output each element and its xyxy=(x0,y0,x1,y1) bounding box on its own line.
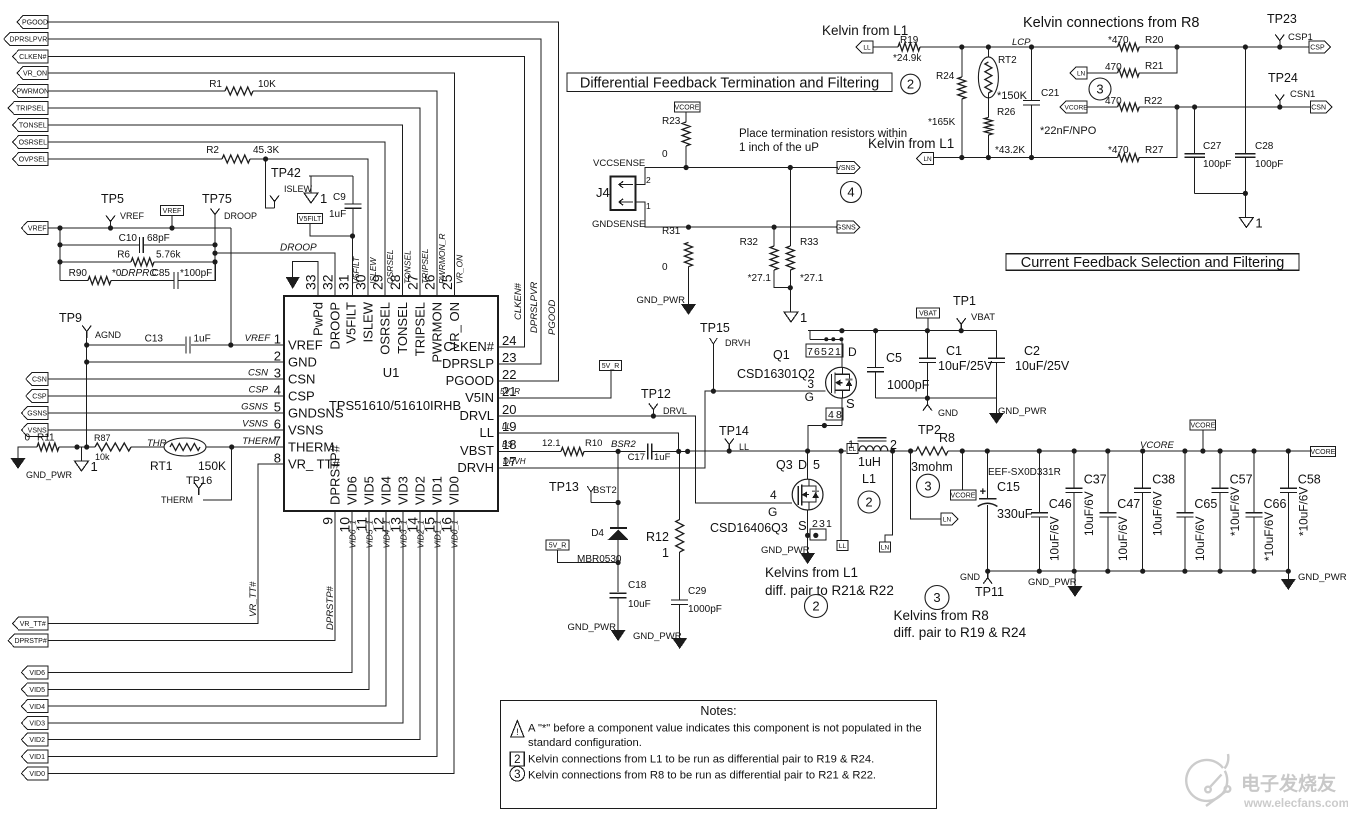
wire CSP xyxy=(48,395,284,397)
svg-text:Kelvin connections from R8 to: Kelvin connections from R8 to be run as … xyxy=(528,769,876,781)
svg-text:5V_R: 5V_R xyxy=(500,387,520,396)
svg-text:68pF: 68pF xyxy=(147,233,170,244)
svg-text:VREF: VREF xyxy=(245,333,272,344)
wire VBAT rail xyxy=(808,330,997,332)
svg-text:3: 3 xyxy=(819,518,825,530)
svg-text:VCORE: VCORE xyxy=(675,104,700,111)
svg-text:CSD16301Q2: CSD16301Q2 xyxy=(737,367,815,381)
svg-text:EEF-SX0D331R: EEF-SX0D331R xyxy=(988,467,1061,478)
svg-text:VID6: VID6 xyxy=(345,476,360,505)
net flag GSNS xyxy=(21,407,48,420)
svg-text:1: 1 xyxy=(800,310,807,325)
svg-text:*100pF: *100pF xyxy=(180,268,212,279)
svg-text:DROOP: DROOP xyxy=(328,302,343,350)
svg-text:VID4: VID4 xyxy=(379,476,394,505)
svg-text:2: 2 xyxy=(514,754,520,766)
svg-text:TP15: TP15 xyxy=(700,321,730,335)
wire Q1 source xyxy=(841,398,843,426)
wire TRIPSEL xyxy=(48,108,420,296)
svg-text:C37: C37 xyxy=(1084,473,1107,487)
svg-text:1: 1 xyxy=(835,346,841,358)
net flag GSNS out xyxy=(837,221,860,233)
svg-text:VID6: VID6 xyxy=(29,670,45,677)
svg-text:*165K: *165K xyxy=(928,117,956,128)
svg-text:PGOOD: PGOOD xyxy=(547,299,558,335)
svg-text:2: 2 xyxy=(646,175,651,185)
svg-text:PWRMON: PWRMON xyxy=(16,89,49,96)
J4 pin2 arrow xyxy=(619,184,633,186)
svg-text:3mohm: 3mohm xyxy=(911,460,953,474)
svg-text:C9: C9 xyxy=(333,192,346,203)
circled 2 note xyxy=(805,595,828,618)
svg-text:*27.1: *27.1 xyxy=(748,273,772,284)
svg-text:10uF/6V: 10uF/6V xyxy=(1047,516,1061,561)
svg-text:3: 3 xyxy=(514,769,520,781)
capacitor C37 xyxy=(1073,451,1075,488)
net flag PGOOD xyxy=(17,16,48,29)
svg-text:GNDSNS: GNDSNS xyxy=(288,406,344,421)
svg-text:MBR0530: MBR0530 xyxy=(577,554,622,565)
svg-text:TP42: TP42 xyxy=(271,166,301,180)
svg-text:1: 1 xyxy=(848,439,854,451)
svg-text:CLKEN#: CLKEN# xyxy=(19,54,46,61)
svg-text:CSN: CSN xyxy=(1311,105,1326,112)
wire C27-C28 gnd link xyxy=(1195,192,1246,194)
svg-text:GND_PWR: GND_PWR xyxy=(633,631,682,642)
svg-text:DPRSTP#: DPRSTP# xyxy=(14,638,46,645)
power-down arrow xyxy=(286,277,300,289)
circled 3 note xyxy=(510,767,525,782)
svg-text:C47: C47 xyxy=(1117,497,1140,511)
resistor R8 xyxy=(908,448,913,453)
net flag CLKEN# xyxy=(13,50,48,63)
svg-text:4: 4 xyxy=(770,488,777,502)
wire LN kelvin from R8 xyxy=(911,451,941,519)
svg-text:TRIPSEL: TRIPSEL xyxy=(16,106,45,113)
svg-text:CSN: CSN xyxy=(248,368,268,379)
capacitor C29 xyxy=(679,552,681,600)
svg-text:DPRSLPVR: DPRSLPVR xyxy=(529,282,540,333)
test point TP13 xyxy=(590,492,592,503)
test point TP23 xyxy=(1279,41,1281,48)
svg-text:GND_PWR: GND_PWR xyxy=(761,545,810,556)
svg-text:3: 3 xyxy=(933,590,940,605)
svg-text:TP1: TP1 xyxy=(953,294,976,308)
svg-text:0: 0 xyxy=(662,262,668,273)
capacitor C27 xyxy=(1194,107,1196,153)
net flag LN kelvin xyxy=(917,153,934,165)
wire VID0 xyxy=(48,511,454,773)
svg-text:C10: C10 xyxy=(119,233,138,244)
svg-text:S: S xyxy=(846,396,855,411)
wire V5IN pin21 xyxy=(498,371,611,399)
svg-text:TP2: TP2 xyxy=(918,423,941,437)
test point TP42 xyxy=(274,202,276,209)
svg-text:Current Feedback Selection and: Current Feedback Selection and Filtering xyxy=(1021,255,1285,271)
svg-text:10uF/6V: 10uF/6V xyxy=(1082,491,1096,536)
wire C9 top link xyxy=(309,175,353,177)
svg-text:diff. pair to R21& R22: diff. pair to R21& R22 xyxy=(765,583,894,598)
svg-text:VID0_1: VID0_1 xyxy=(450,520,460,549)
svg-text:*22nF/NPO: *22nF/NPO xyxy=(1040,125,1097,137)
test point TP75 xyxy=(214,215,216,222)
wire RT1 to pin7 xyxy=(206,446,284,448)
thermistor RT2 xyxy=(987,47,989,57)
svg-text:DRVH: DRVH xyxy=(457,460,494,475)
svg-text:OSRSEL: OSRSEL xyxy=(385,249,395,284)
capacitor C13 xyxy=(191,344,231,346)
wire CLKEN# xyxy=(48,57,525,348)
svg-text:R8: R8 xyxy=(939,431,955,445)
svg-text:LN: LN xyxy=(923,156,932,163)
svg-text:G: G xyxy=(768,505,777,519)
svg-text:0: 0 xyxy=(24,433,30,444)
svg-text:24: 24 xyxy=(502,333,516,348)
capacitor C10 xyxy=(60,244,140,246)
net flag VID0 xyxy=(21,767,48,780)
svg-text:VID5: VID5 xyxy=(29,687,45,694)
svg-text:TONSEL: TONSEL xyxy=(403,250,413,284)
svg-text:CSN: CSN xyxy=(32,377,47,384)
net flag LN (R21) xyxy=(1070,67,1087,79)
wire left bus xyxy=(59,228,61,281)
wire R11 to ground xyxy=(18,447,37,458)
net flag VID2 xyxy=(21,733,48,746)
label LL box hang xyxy=(837,541,848,551)
svg-text:1: 1 xyxy=(662,546,669,560)
svg-text:C27: C27 xyxy=(1203,141,1222,152)
label VREF box xyxy=(160,206,183,216)
svg-text:diff. pair to R19 & R24: diff. pair to R19 & R24 xyxy=(894,625,1027,640)
svg-text:GND_PWR: GND_PWR xyxy=(1028,577,1077,588)
svg-text:R10: R10 xyxy=(585,438,602,449)
svg-text:33: 33 xyxy=(303,274,319,290)
net flag TONSEL xyxy=(13,119,48,132)
resistor R24 xyxy=(961,47,963,77)
svg-text:GND_PWR: GND_PWR xyxy=(26,470,73,480)
wire DROOP xyxy=(215,253,335,296)
svg-text:V5FILT: V5FILT xyxy=(344,302,359,344)
test point TP14 xyxy=(727,448,732,453)
svg-text:2: 2 xyxy=(812,518,818,530)
svg-text:100pF: 100pF xyxy=(1203,159,1231,170)
capacitor C58 xyxy=(1287,451,1289,488)
svg-text:BS: BS xyxy=(502,440,513,449)
net flag PWRMON xyxy=(13,85,48,98)
wire VR_TT# xyxy=(48,464,284,623)
wire DRVL pin20 xyxy=(498,416,792,503)
wire 5V_R to C18 node xyxy=(558,550,619,563)
ground GND_PWR mid xyxy=(1074,571,1076,586)
svg-text:C57: C57 xyxy=(1230,473,1253,487)
test point TP12 xyxy=(651,413,656,418)
svg-text:C38: C38 xyxy=(1152,473,1175,487)
svg-text:OSRSEL: OSRSEL xyxy=(378,302,393,355)
svg-text:TP13: TP13 xyxy=(549,480,579,494)
net flag DPRSLPVR xyxy=(4,33,48,46)
svg-text:DPRSLPVR: DPRSLPVR xyxy=(10,37,48,44)
thermistor RT1 xyxy=(164,438,206,456)
note: Kelvins from R8 xyxy=(925,586,949,610)
capacitor C47 xyxy=(1107,451,1109,513)
svg-text:VID5: VID5 xyxy=(362,476,377,505)
capacitor C46 xyxy=(1038,451,1040,513)
node OVPSEL/ISLEW junction xyxy=(263,156,268,161)
svg-text:G: G xyxy=(805,390,814,404)
net flag VID5 xyxy=(21,683,48,696)
svg-text:R21: R21 xyxy=(1145,61,1164,72)
svg-text:C65: C65 xyxy=(1194,497,1217,511)
svg-text:TP5: TP5 xyxy=(101,192,124,206)
net flag VID6 xyxy=(21,666,48,679)
wire DRVH pin17 xyxy=(498,391,826,468)
connector J4 xyxy=(611,176,636,210)
svg-text:VID0: VID0 xyxy=(29,771,45,778)
wire Q1 drain xyxy=(841,339,843,367)
svg-text:GSNS: GSNS xyxy=(27,411,47,418)
svg-text:12.1: 12.1 xyxy=(542,438,561,449)
svg-text:Kelvins from L1: Kelvins from L1 xyxy=(765,565,858,580)
svg-text:R27: R27 xyxy=(1145,145,1164,156)
svg-text:GND: GND xyxy=(938,408,959,418)
svg-text:GND: GND xyxy=(288,355,317,370)
ground triangle 1 R33 xyxy=(784,312,798,322)
svg-text:R24: R24 xyxy=(936,71,955,82)
net flag DPRSTP# xyxy=(8,634,48,647)
resistor R21 xyxy=(1087,72,1118,74)
svg-text:DRVL: DRVL xyxy=(460,408,494,423)
svg-text:LL: LL xyxy=(480,425,494,440)
svg-text:RT1: RT1 xyxy=(150,459,173,473)
svg-text:DRVH: DRVH xyxy=(725,338,750,348)
node L1 pin2 xyxy=(890,448,895,453)
svg-text:VID1: VID1 xyxy=(29,754,45,761)
svg-text:THERM: THERM xyxy=(161,495,193,505)
wire DPRSTP# xyxy=(48,511,335,641)
wire VSNS xyxy=(48,429,284,431)
wire V5FILT to pin31 xyxy=(310,224,353,237)
ground triangle 1 C28 xyxy=(1239,217,1253,227)
svg-text:C15: C15 xyxy=(997,480,1020,494)
ground GND_PWR R31 xyxy=(681,304,696,315)
svg-text:5V_R: 5V_R xyxy=(549,543,567,550)
svg-text:8: 8 xyxy=(274,451,281,466)
net flag LL kelvin xyxy=(856,41,873,53)
wire PWRMON xyxy=(48,90,225,92)
label LL box on rail xyxy=(847,444,858,454)
svg-text:VCORE: VCORE xyxy=(1140,440,1174,451)
svg-text:U1: U1 xyxy=(383,365,400,380)
label VBAT box xyxy=(916,308,939,318)
wire PGOOD xyxy=(48,22,559,381)
J4 pin1 arrow xyxy=(619,201,633,203)
svg-text:TRIPSEL: TRIPSEL xyxy=(420,248,430,284)
svg-text:VR_TT#: VR_TT# xyxy=(20,621,46,628)
svg-text:TP11: TP11 xyxy=(975,585,1004,599)
net flag VID1 xyxy=(21,750,48,763)
svg-text:电子发烧友: 电子发烧友 xyxy=(1241,772,1336,795)
svg-text:*24.9k: *24.9k xyxy=(893,53,922,64)
wire VID4 xyxy=(48,511,386,706)
svg-text:TP14: TP14 xyxy=(719,424,749,438)
capacitor C18 xyxy=(610,592,627,594)
svg-text:VCORE: VCORE xyxy=(1190,423,1215,430)
watermark logo elecfans xyxy=(1186,754,1230,806)
svg-text:VR_TT#: VR_TT# xyxy=(248,581,259,617)
svg-text:GND: GND xyxy=(960,572,981,582)
wire VID5 xyxy=(48,511,369,689)
net flag OVPSEL xyxy=(13,153,48,166)
svg-text:D: D xyxy=(798,458,807,472)
svg-text:*10uF/6V: *10uF/6V xyxy=(1262,512,1276,561)
wire GSNS xyxy=(48,412,284,414)
wire VREF row xyxy=(48,227,231,229)
net flag OSRSEL xyxy=(13,136,48,149)
label 5V_R box D4 xyxy=(546,540,569,550)
label VCORE box above rail xyxy=(1190,420,1216,430)
svg-text:VREF: VREF xyxy=(288,338,323,353)
net flag VID3 xyxy=(21,717,48,730)
net flag CSP xyxy=(26,390,48,403)
svg-text:PWRMON: PWRMON xyxy=(430,302,445,363)
resistor R19 xyxy=(873,46,898,48)
wire BSR2 node xyxy=(584,450,646,452)
inductor L1 xyxy=(859,446,888,451)
svg-text:10uF/6V: 10uF/6V xyxy=(1116,516,1130,561)
svg-text:J4: J4 xyxy=(596,185,610,200)
net flag VREF xyxy=(21,222,48,235)
svg-text:VID2: VID2 xyxy=(29,737,45,744)
capacitor C21 xyxy=(1031,47,1033,101)
svg-text:C2: C2 xyxy=(1024,344,1040,358)
svg-text:7: 7 xyxy=(807,346,813,358)
Q1 source pin group 48 xyxy=(826,408,843,420)
wire TONSEL xyxy=(48,125,403,296)
svg-text:Kelvins from R8: Kelvins from R8 xyxy=(894,608,989,623)
svg-text:CLKEN#: CLKEN# xyxy=(513,282,524,320)
svg-text:C1: C1 xyxy=(946,344,962,358)
wire PwPd pin33 xyxy=(293,262,318,297)
capacitor C5 xyxy=(875,331,877,368)
svg-text:VREF: VREF xyxy=(120,211,145,221)
svg-text:Kelvin connections from L1 to: Kelvin connections from L1 to be run as … xyxy=(528,754,874,766)
test point TP9 AGND xyxy=(86,332,88,339)
svg-text:DPRSTP#: DPRSTP# xyxy=(325,585,336,630)
svg-text:VCCSENSE: VCCSENSE xyxy=(593,158,645,169)
svg-text:4: 4 xyxy=(847,185,854,200)
svg-text:1: 1 xyxy=(826,518,832,530)
ground GND_PWR C18 xyxy=(611,630,626,641)
svg-text:S: S xyxy=(798,518,807,533)
resistor R12 xyxy=(679,451,681,519)
svg-text:10k: 10k xyxy=(95,452,110,462)
wire L1 pin2 to LN box xyxy=(885,451,893,542)
wire VREF pin1 xyxy=(230,228,232,345)
notes box xyxy=(501,701,937,809)
svg-text:A "*" before a component value: A "*" before a component value indicates… xyxy=(528,723,922,735)
svg-text:5V_R: 5V_R xyxy=(602,363,620,370)
svg-text:5: 5 xyxy=(813,458,820,472)
capacitor C57 xyxy=(1219,451,1221,488)
svg-text:TP24: TP24 xyxy=(1268,71,1298,85)
capacitor C66 xyxy=(1253,451,1255,513)
svg-text:TP12: TP12 xyxy=(641,387,671,401)
svg-text:V5FILT: V5FILT xyxy=(299,216,322,223)
svg-text:OSRSEL: OSRSEL xyxy=(19,140,48,147)
svg-text:V5IN: V5IN xyxy=(465,390,494,405)
label 5V_R box xyxy=(600,361,622,371)
svg-text:0: 0 xyxy=(662,149,668,160)
svg-text:VSNS: VSNS xyxy=(242,419,269,430)
circled 2 next to title xyxy=(901,74,921,94)
wire VID2 xyxy=(48,511,420,740)
test point TP16 xyxy=(203,447,232,500)
svg-text:Differential Feedback Terminat: Differential Feedback Termination and Fi… xyxy=(580,76,879,92)
svg-text:VID0: VID0 xyxy=(447,476,462,505)
svg-text:GND_PWR: GND_PWR xyxy=(998,406,1047,417)
diode D4 MBR0530 xyxy=(610,527,627,529)
net flag TRIPSEL xyxy=(8,102,48,115)
wire C-bottom rail xyxy=(876,397,997,399)
circled 3 under R8 xyxy=(917,474,940,497)
wire DPRSLPVR xyxy=(48,39,541,364)
svg-text:4: 4 xyxy=(274,383,281,398)
svg-text:GSNS: GSNS xyxy=(836,225,856,232)
svg-text:3: 3 xyxy=(807,377,814,391)
svg-text:LN: LN xyxy=(943,517,952,524)
resistor R10 xyxy=(561,447,584,455)
resistor R1 xyxy=(225,87,253,95)
wire VID6 xyxy=(48,511,352,672)
svg-text:GNDSENSE: GNDSENSE xyxy=(592,219,645,230)
svg-text:TONSEL: TONSEL xyxy=(395,302,410,354)
svg-text:R87: R87 xyxy=(94,433,111,443)
svg-text:R23: R23 xyxy=(662,116,681,127)
wire LL pin19 xyxy=(498,433,679,451)
svg-text:!: ! xyxy=(516,727,519,737)
svg-text:6: 6 xyxy=(274,417,281,432)
svg-text:C28: C28 xyxy=(1255,141,1274,152)
wire C17 to LL node xyxy=(652,450,688,452)
capacitor C9 xyxy=(352,176,354,204)
net flag VSNS xyxy=(21,424,48,437)
svg-text:1000pF: 1000pF xyxy=(887,378,930,392)
svg-text:CSP: CSP xyxy=(248,385,268,396)
svg-text:C66: C66 xyxy=(1264,497,1287,511)
capacitor C1 xyxy=(926,331,928,359)
svg-text:3: 3 xyxy=(274,366,281,381)
svg-text:C21: C21 xyxy=(1041,88,1060,99)
svg-text:Kelvin from L1: Kelvin from L1 xyxy=(822,23,908,38)
svg-text:PwPd: PwPd xyxy=(311,302,326,336)
svg-text:VREF: VREF xyxy=(163,208,182,215)
svg-text:LL: LL xyxy=(863,45,871,52)
svg-text:C13: C13 xyxy=(145,334,164,345)
svg-text:Kelvin connections from R8: Kelvin connections from R8 xyxy=(1023,15,1200,31)
svg-text:PWRMON_R: PWRMON_R xyxy=(437,233,447,284)
svg-text:CSN1: CSN1 xyxy=(1290,89,1315,100)
svg-text:VCORE: VCORE xyxy=(951,493,976,500)
svg-text:20: 20 xyxy=(502,402,516,417)
svg-text:1000pF: 1000pF xyxy=(688,604,722,615)
svg-text:45.3K: 45.3K xyxy=(253,145,279,156)
svg-text:31: 31 xyxy=(336,274,352,290)
ground GND_PWR C29 xyxy=(672,638,687,649)
svg-text:Kelvin from L1: Kelvin from L1 xyxy=(868,136,954,151)
svg-text:23: 23 xyxy=(502,350,516,365)
svg-text:1uF: 1uF xyxy=(329,209,346,220)
svg-text:10uF/25V: 10uF/25V xyxy=(1015,359,1070,373)
